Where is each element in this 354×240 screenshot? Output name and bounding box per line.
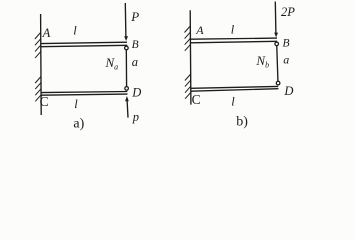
- beam AB double line (figure b): [191, 38, 277, 39]
- svg-text:l: l: [73, 24, 77, 38]
- svg-text:B: B: [283, 38, 290, 50]
- force p arrow line below D (figure a): [126, 101, 129, 118]
- rod BD (figure b): [277, 44, 278, 83]
- svg-text:a: a: [132, 55, 138, 69]
- wall A-C (figure a): [40, 14, 43, 115]
- svg-text:Nb: Nb: [255, 53, 269, 70]
- svg-text:2P: 2P: [281, 5, 295, 19]
- beam CD double line (figure b): [191, 86, 278, 88]
- svg-text:A: A: [195, 23, 204, 37]
- svg-text:D: D: [283, 84, 293, 98]
- svg-text:p: p: [132, 110, 139, 124]
- force 2P arrowhead at B (figure b): [274, 33, 278, 38]
- svg-text:B: B: [132, 39, 139, 51]
- pin circle D (figure b): [276, 81, 280, 85]
- svg-text:a): a): [73, 117, 84, 132]
- wall hatching lower (figure a): [35, 77, 41, 102]
- svg-text:l: l: [231, 23, 235, 37]
- force P arrowhead at B (figure a): [124, 36, 128, 41]
- svg-text:D: D: [131, 85, 141, 99]
- svg-text:P: P: [130, 9, 139, 24]
- svg-text:a: a: [283, 53, 289, 67]
- svg-text:l: l: [74, 97, 78, 111]
- svg-text:b): b): [236, 115, 248, 130]
- svg-text:Na: Na: [105, 55, 119, 71]
- pin circle D (figure a): [125, 87, 129, 91]
- svg-text:A: A: [42, 26, 51, 40]
- force 2P arrow line at B (figure b): [274, 2, 277, 34]
- beam CD double line (figure a): [41, 92, 127, 93]
- pin circle B (figure a): [125, 46, 129, 50]
- svg-text:C: C: [40, 94, 49, 109]
- rod BD (figure a): [125, 48, 127, 88]
- force P arrow line at B (figure a): [124, 3, 127, 38]
- wall hatching upper (figure a): [35, 33, 41, 58]
- wall hatching lower (figure b): [185, 74, 191, 99]
- wall A-C (figure b): [189, 10, 192, 104]
- force p arrowhead below D (figure a): [125, 96, 129, 101]
- svg-text:C: C: [192, 92, 201, 107]
- beam AB double line (figure a): [41, 42, 127, 43]
- wall hatching upper (figure b): [185, 26, 191, 51]
- svg-text:l: l: [231, 94, 235, 108]
- pin circle B (figure b): [275, 42, 279, 46]
